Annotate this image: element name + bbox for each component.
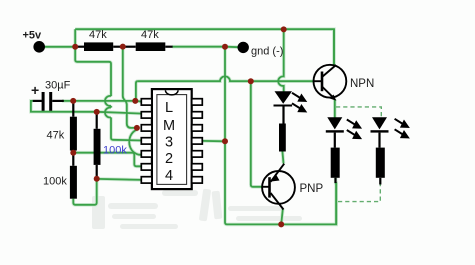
resistor R8 bottom lead <box>379 178 381 185</box>
resistor R7 bottom lead <box>334 178 336 183</box>
LED D3 <box>371 117 389 147</box>
LED D2 <box>326 117 344 147</box>
svg-text:gnd (-): gnd (-) <box>251 46 283 58</box>
resistor R2 47k top-right <box>123 46 136 48</box>
resistor R6 (LED D1 series) <box>279 124 286 152</box>
node junction PNP collector / bottom rail <box>278 221 284 227</box>
op-amp U1 pins right <box>192 99 203 183</box>
transistor Q1 NPN <box>314 65 347 99</box>
node junction IC pin2 / 100k top <box>94 109 100 115</box>
svg-text:100k: 100k <box>43 176 67 188</box>
op-amp U1 pins left <box>141 99 152 183</box>
resistor R5 100k(blue) body <box>94 129 101 165</box>
svg-text:30µF: 30µF <box>45 80 71 92</box>
LED D1 light arrows <box>292 93 305 112</box>
resistor R5 bottom lead <box>96 165 98 179</box>
wire dashed LED2 resistor bottom link <box>338 185 380 202</box>
svg-text:M: M <box>163 118 175 134</box>
node junction IC pin R4 / gnd column <box>222 138 228 144</box>
LED D3 light arrows <box>395 119 408 138</box>
resistor R3 47k vertical lead top <box>72 101 74 117</box>
svg-text:47k: 47k <box>89 29 107 41</box>
resistor R4 100k body <box>70 166 77 199</box>
node gnd terminal <box>238 42 249 53</box>
svg-text:100k: 100k <box>103 145 127 157</box>
node +5v terminal <box>33 41 45 53</box>
svg-text:47k: 47k <box>141 29 159 41</box>
node junction between 47k resistors <box>120 44 126 50</box>
svg-text:4: 4 <box>165 168 173 184</box>
svg-text:2: 2 <box>165 151 173 167</box>
node junction output to PNP base <box>248 78 254 84</box>
resistor R4 100k lead top <box>72 153 74 166</box>
resistor R8 (LED D3 series) <box>376 148 385 178</box>
transistor Q2 PNP <box>262 164 295 210</box>
node junction gnd branch <box>222 44 228 50</box>
svg-text:47k: 47k <box>47 130 65 142</box>
LED D1 (above PNP) <box>274 91 293 123</box>
watermark <box>92 189 302 229</box>
resistor R1 47k top-left <box>77 46 84 48</box>
resistor R7 (LED D2 series) <box>331 148 340 178</box>
svg-text:NPN: NPN <box>350 78 374 90</box>
capacitor C1 30uF leads and plates <box>33 100 42 102</box>
resistor R3 47k vertical body <box>70 117 77 151</box>
transistor Q1 emitter arrow <box>330 95 337 101</box>
svg-text:3: 3 <box>165 135 173 151</box>
svg-text:PNP: PNP <box>300 183 324 195</box>
node junction IC pin3 <box>134 125 140 131</box>
svg-text:+5v: +5v <box>23 30 43 42</box>
node junction +5v rail <box>72 44 78 50</box>
resistor R5 100k(blue) lead top <box>96 112 98 129</box>
node junction IC pin1 <box>132 98 138 104</box>
node junction top rail to LED column <box>281 26 287 32</box>
svg-text:L: L <box>165 100 173 116</box>
transistor Q2 emitter arrow (pointing in) <box>271 174 280 182</box>
resistor R3 bottom lead <box>72 151 74 153</box>
op-amp U1 LM324 body <box>152 89 192 189</box>
node junction 100k bottom / IC pin7 <box>94 176 100 182</box>
wire dashed emitter rail to LED2 <box>336 107 381 117</box>
svg-text:+: + <box>31 82 39 98</box>
op-amp U1 label LM324 <box>163 100 175 184</box>
node junction capacitor / 47k divider <box>70 98 76 104</box>
LED D2 light arrows <box>347 120 360 139</box>
node junction 47k/100k divider <box>70 150 76 156</box>
